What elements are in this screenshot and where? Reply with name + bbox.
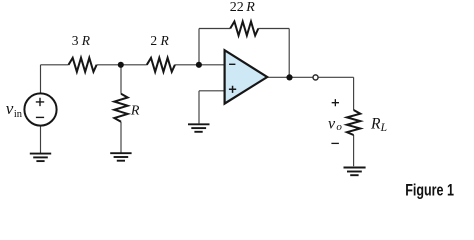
resistor 22R (feedback) bbox=[230, 22, 258, 36]
svg-text:R: R bbox=[130, 103, 140, 118]
resistor RL bbox=[347, 110, 360, 135]
wire node B to op-amp inverting input bbox=[199, 64, 225, 66]
svg-text:R: R bbox=[245, 0, 255, 15]
svg-text:22: 22 bbox=[230, 0, 244, 15]
wire op-amp output to terminal bbox=[267, 76, 313, 78]
wire 22R to feedback right corner bbox=[258, 28, 289, 30]
node A (junction dot) bbox=[118, 62, 124, 68]
wire 2R to node B bbox=[175, 64, 199, 66]
wire feedback top left to 22R bbox=[199, 28, 230, 30]
svg-text:2: 2 bbox=[150, 33, 157, 48]
ground (below Vin) bbox=[30, 154, 51, 162]
svg-text:Figure 1: Figure 1 bbox=[405, 182, 454, 200]
wire RL to ground bbox=[353, 135, 355, 166]
wire node A drop to R bbox=[120, 65, 122, 94]
svg-text:3: 3 bbox=[72, 33, 79, 48]
svg-text:in: in bbox=[14, 109, 23, 120]
wire feedback right drop to output node bbox=[288, 29, 290, 78]
label + (vo polarity) bbox=[332, 99, 339, 106]
wire right drop to RL bbox=[353, 77, 355, 110]
label vo bbox=[328, 115, 342, 133]
svg-text:R: R bbox=[370, 115, 381, 132]
label 3R bbox=[72, 33, 91, 48]
svg-text:v: v bbox=[328, 115, 336, 132]
svg-text:R: R bbox=[81, 33, 91, 48]
svg-text:o: o bbox=[336, 121, 342, 133]
resistor R bbox=[114, 94, 127, 122]
wire terminal to right corner bbox=[318, 76, 354, 78]
wire main line source corner to 3R bbox=[41, 64, 69, 66]
svg-text:v: v bbox=[6, 99, 14, 118]
wire source bottom to ground bbox=[40, 126, 42, 153]
wire left riser from source to main line bbox=[40, 65, 42, 93]
ground (below R) bbox=[110, 153, 131, 161]
ground (below RL) bbox=[344, 168, 366, 176]
wire noninverting input horizontal bbox=[199, 90, 225, 92]
label - (vo polarity) bbox=[331, 142, 339, 144]
terminal (open circle) bbox=[313, 75, 318, 80]
node C (output junction dot) bbox=[286, 74, 292, 80]
label 2R bbox=[150, 33, 169, 48]
resistor 2R bbox=[147, 58, 175, 72]
wire noninverting input drop to ground bbox=[198, 91, 200, 124]
op-amp U1 bbox=[225, 50, 268, 103]
svg-text:R: R bbox=[160, 33, 170, 48]
label v_in bbox=[6, 99, 23, 120]
label 22R bbox=[230, 0, 256, 15]
label RL bbox=[370, 115, 387, 134]
ground (below op-amp + input) bbox=[188, 124, 210, 132]
voltage source Vin bbox=[24, 93, 56, 125]
wire 3R to node A bbox=[97, 64, 121, 66]
wire feedback riser from node B bbox=[198, 29, 200, 65]
resistor 3R bbox=[69, 58, 97, 72]
node B (junction dot at inverting input) bbox=[196, 62, 202, 68]
svg-text:L: L bbox=[380, 122, 387, 134]
wire node A to 2R bbox=[121, 64, 147, 66]
wire R to ground bbox=[120, 122, 122, 153]
